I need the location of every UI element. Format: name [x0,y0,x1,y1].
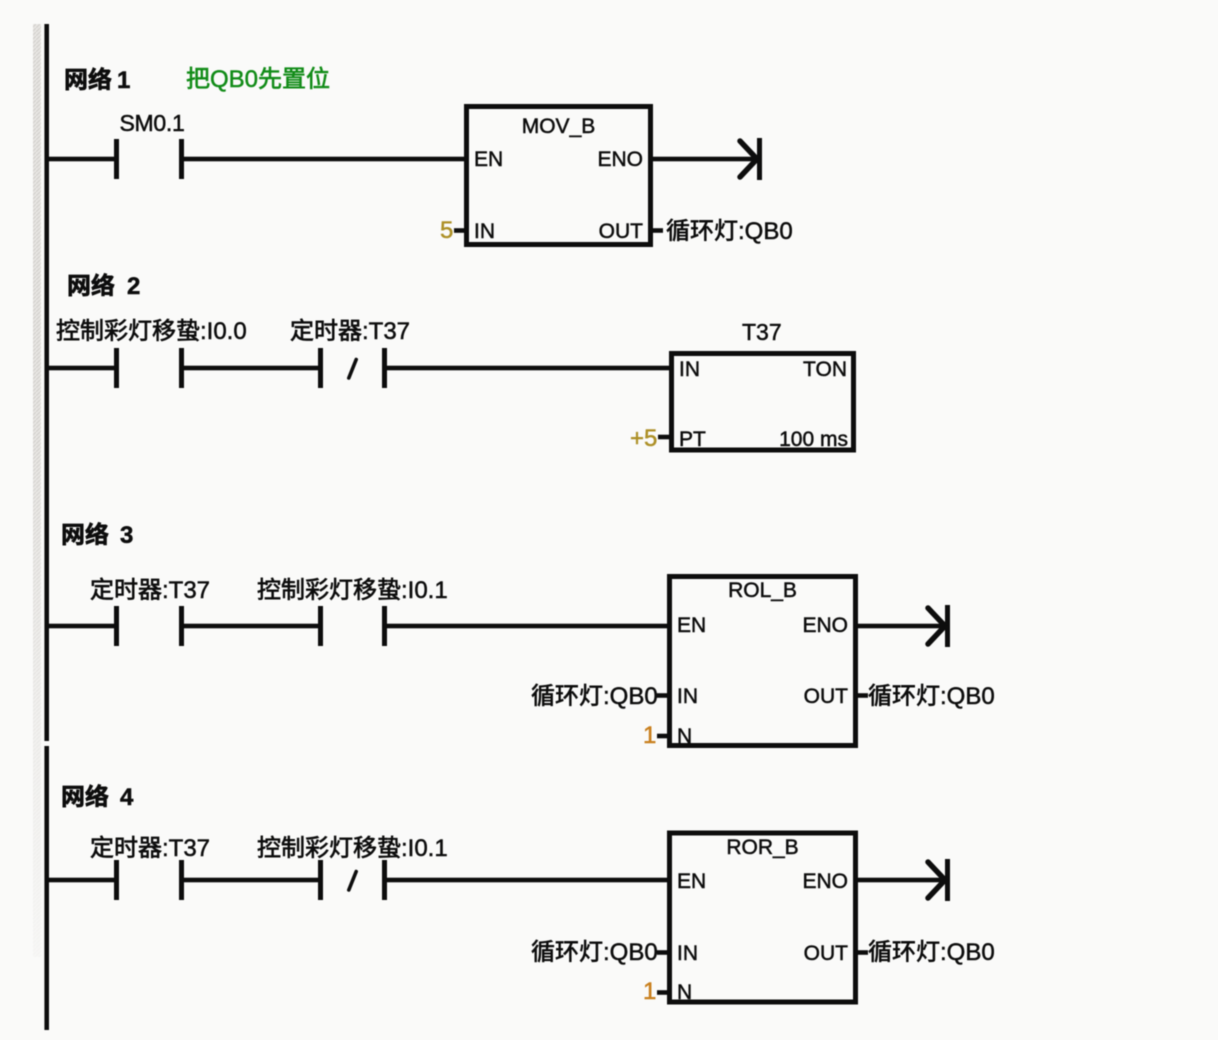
N pin stub (ROR_B) [657,990,669,995]
svg-text:3: 3 [120,522,133,549]
svg-text::T37: :T37 [162,577,210,604]
contact T37 (normally closed) [318,348,323,388]
wire contact I0.0 to contact T37 [184,366,318,371]
svg-text:QB0: QB0 [210,66,258,93]
IN operand label 循环灯:QB0 [532,940,554,962]
contact T37 (net4) [114,860,119,900]
contact T37 [114,606,119,646]
svg-text::I0.1: :I0.1 [401,577,448,604]
svg-text:SM0.1: SM0.1 [120,110,185,136]
svg-text:OUT: OUT [804,942,849,965]
contact I0.1 (normally closed, net4) [318,860,323,900]
svg-text:ENO: ENO [597,148,643,171]
network 1 comment text [187,67,209,89]
contact I0.1 label 控制彩灯移蛰:I0.1 [258,836,280,858]
IN pin stub (ROR_B) [657,950,669,955]
OUT pin stub [651,228,663,233]
svg-text:ROR_B: ROR_B [726,836,798,859]
contact I0.0 [114,348,119,388]
svg-text:IN: IN [679,358,700,381]
svg-text:EN: EN [474,148,503,171]
svg-text::QB0: :QB0 [603,683,658,710]
svg-text::QB0: :QB0 [603,939,658,966]
svg-text:ROL_B: ROL_B [728,579,797,602]
svg-text:100 ms: 100 ms [779,428,848,451]
wire rail to contact T37 [49,624,114,629]
power rail (upper segment) [44,24,49,741]
wire rail to contact T37 (net4) [49,878,114,883]
contact I0.0 label 控制彩灯移蛰:I0.0 [57,319,79,341]
contact I0.1 label 控制彩灯移蛰:I0.1 [258,578,280,600]
svg-text:4: 4 [120,784,134,811]
wire rail to contact I0.0 [49,366,114,371]
svg-text::QB0: :QB0 [940,939,995,966]
power rail (lower segment) [44,746,49,1030]
svg-text:T37: T37 [742,319,782,345]
IN pin stub [454,228,466,233]
svg-text:OUT: OUT [804,685,849,708]
block T37 TON [672,354,854,451]
svg-text::I0.0: :I0.0 [200,318,247,345]
wire contact T37 to contact I0.1 (net4) [184,878,318,883]
svg-text:1: 1 [643,722,656,749]
svg-text:1: 1 [643,978,656,1005]
OUT pin stub (ROR_B) [856,950,868,955]
svg-text:IN: IN [677,685,698,708]
ENO output wire and arrow (ROL_B) [856,624,947,629]
svg-text:OUT: OUT [599,220,644,243]
svg-text:+5: +5 [630,425,657,452]
svg-text:1: 1 [117,67,130,94]
svg-text:IN: IN [474,220,495,243]
wire rail to contact SM0.1 [49,157,114,162]
svg-text:EN: EN [677,870,706,893]
block ROL_B [670,577,856,746]
svg-text::QB0: :QB0 [738,218,793,245]
svg-text:EN: EN [677,614,706,637]
wire contact T37 to T37 box IN [387,366,671,371]
svg-text:MOV_B: MOV_B [522,115,596,138]
svg-text:IN: IN [677,942,698,965]
network 2 header [69,275,89,296]
IN pin stub (ROL_B) [657,693,669,698]
svg-text:N: N [677,725,692,748]
OUT operand label 循环灯:QB0 [667,219,689,241]
wire contact I0.1 to ROL_B EN [387,624,669,629]
svg-text:TON: TON [803,358,847,381]
network 3 header [63,524,83,545]
block MOV_B [467,107,651,245]
N pin stub (ROL_B) [657,734,669,739]
network 4 header [63,786,83,807]
ENO output wire and arrow (ROR_B) [856,878,947,883]
contact T37 label 定时器:T37 [91,836,113,858]
contact T37 label 定时器:T37 [91,578,113,600]
svg-text:ENO: ENO [802,870,848,893]
svg-text::I0.1: :I0.1 [401,835,448,862]
svg-text:5: 5 [440,217,453,244]
svg-text::QB0: :QB0 [940,683,995,710]
svg-text::T37: :T37 [362,318,410,345]
contact SM0.1 [114,139,119,179]
IN operand label 循环灯:QB0 [532,684,554,706]
network 1 header [66,69,86,90]
svg-text:PT: PT [679,428,706,451]
OUT operand label 循环灯:QB0 [869,684,891,706]
svg-text:2: 2 [127,273,140,300]
wire contact I0.1 to ROR_B EN [387,878,669,883]
svg-text:ENO: ENO [802,614,848,637]
wire contact T37 to contact I0.1 [184,624,318,629]
contact T37 label 定时器:T37 [291,319,313,341]
OUT operand label 循环灯:QB0 [869,940,891,962]
svg-text:N: N [677,981,692,1004]
contact I0.1 [318,606,323,646]
PT pin stub [658,435,671,440]
svg-text::T37: :T37 [162,835,210,862]
OUT pin stub (ROL_B) [856,693,868,698]
ENO output wire and arrow [651,157,759,162]
left margin textured strip [33,24,41,957]
wire contact SM0.1 to MOV_B EN [184,157,466,162]
block ROR_B [670,833,856,1002]
